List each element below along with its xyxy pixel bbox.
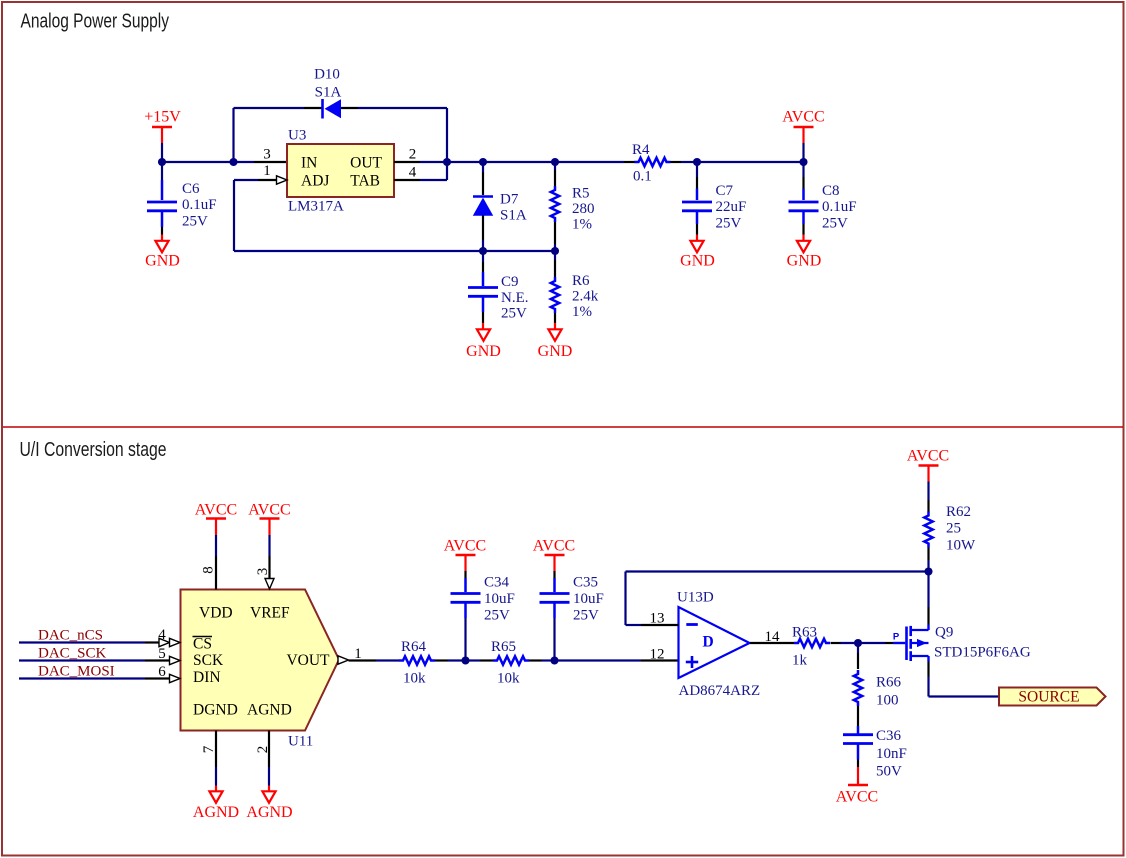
wire	[162, 161, 234, 163]
svg-text:AVCC: AVCC	[533, 538, 575, 555]
wire drain	[927, 572, 929, 608]
svg-text:GND: GND	[466, 343, 501, 360]
wire	[161, 143, 163, 162]
svg-text:D7: D7	[500, 192, 519, 208]
resistor R62	[927, 482, 929, 501]
svg-text:R6: R6	[572, 273, 590, 289]
resistor R64	[399, 656, 435, 664]
svg-text:5: 5	[158, 646, 166, 662]
ground GND R6	[554, 323, 556, 329]
wire pin2 stub OUT	[394, 161, 420, 163]
net DAC_nCS wire	[19, 641, 145, 643]
node C8 junction	[799, 158, 807, 166]
pin 6 arrow	[170, 674, 181, 682]
svg-text:U3: U3	[288, 128, 306, 144]
svg-text:1%: 1%	[572, 217, 592, 233]
resistor R65	[466, 659, 481, 661]
svg-text:12: 12	[650, 647, 665, 663]
ground AGND pin2	[268, 786, 270, 792]
section divider	[3, 426, 1123, 428]
wire to pin 12	[555, 659, 642, 661]
capacitor C35	[553, 571, 555, 578]
wire gate	[858, 642, 885, 644]
svg-text:ADJ: ADJ	[301, 173, 329, 190]
svg-text:R65: R65	[491, 639, 516, 655]
svg-text:OUT: OUT	[350, 155, 382, 172]
wire pin1 stub	[234, 179, 258, 181]
resistor R5	[554, 162, 556, 170]
svg-text:R5: R5	[572, 186, 590, 202]
svg-text:7: 7	[201, 745, 217, 753]
svg-text:0.1uF: 0.1uF	[822, 199, 857, 215]
resistor R63	[794, 639, 830, 647]
net DAC_SCK wire	[19, 659, 145, 661]
svg-text:10W: 10W	[946, 538, 976, 554]
svg-text:R64: R64	[401, 639, 427, 655]
node R6 junction	[551, 247, 559, 255]
wire ADJ left leg	[233, 180, 235, 251]
pin 1 ADJ arrow	[277, 176, 288, 184]
node OUT junction	[443, 158, 451, 166]
svg-text:25V: 25V	[822, 216, 848, 232]
wire VOUT	[349, 659, 377, 661]
pin 4 arrows	[159, 638, 170, 646]
svg-text:N.E.: N.E.	[501, 290, 529, 306]
svg-text:GND: GND	[680, 253, 715, 270]
node D7 junction	[479, 158, 487, 166]
svg-text:100: 100	[876, 693, 899, 709]
svg-text:S1A: S1A	[500, 208, 527, 224]
svg-text:8: 8	[201, 566, 217, 574]
node +15V rail junction	[158, 158, 166, 166]
svg-text:C36: C36	[876, 728, 902, 744]
svg-text:GND: GND	[787, 253, 822, 270]
node drain/feedback junction	[924, 567, 932, 575]
svg-text:C6: C6	[182, 181, 200, 197]
svg-text:VDD: VDD	[199, 605, 233, 622]
power AVCC C36 bottom	[857, 767, 859, 785]
wire pin4 stub TAB	[394, 179, 420, 181]
svg-text:0.1: 0.1	[633, 169, 652, 185]
capacitor C36	[857, 726, 860, 734]
svg-text:13: 13	[650, 611, 665, 627]
pin 5 arrow	[170, 656, 181, 664]
svg-text:+15V: +15V	[144, 109, 181, 126]
svg-text:AGND: AGND	[193, 804, 239, 821]
wire pin 14	[750, 642, 794, 644]
resistor R66	[857, 643, 859, 653]
svg-text:LM317A: LM317A	[288, 199, 344, 215]
svg-text:D10: D10	[314, 67, 340, 83]
svg-text:R4: R4	[632, 142, 650, 158]
svg-text:AVCC: AVCC	[782, 109, 824, 126]
ground GND C7	[696, 235, 698, 241]
svg-text:U/I Conversion stage: U/I Conversion stage	[20, 439, 167, 461]
wire	[555, 161, 624, 163]
svg-text:STD15P6F6AG: STD15P6F6AG	[934, 645, 1031, 661]
svg-text:S1A: S1A	[315, 85, 342, 101]
svg-text:AVCC: AVCC	[248, 502, 290, 519]
capacitor C6	[161, 162, 163, 180]
wire source to flag	[927, 662, 929, 677]
svg-text:C34: C34	[484, 575, 510, 591]
svg-text:IN: IN	[301, 155, 317, 172]
ground AGND pin7	[215, 786, 217, 792]
node D10 tap junction	[229, 158, 237, 166]
svg-text:R63: R63	[792, 625, 817, 641]
capacitor C7	[696, 162, 698, 177]
node R63/R66 junction	[854, 639, 862, 647]
svg-text:10k: 10k	[403, 671, 426, 687]
wire pin 2	[268, 731, 270, 768]
svg-text:Q9: Q9	[935, 625, 953, 641]
svg-text:1k: 1k	[792, 653, 808, 669]
ground GND C6	[161, 235, 163, 241]
node R65/C35 junction	[550, 656, 558, 664]
svg-text:C7: C7	[716, 183, 734, 199]
node R64/C34 junction	[461, 656, 469, 664]
wire	[483, 161, 555, 163]
svg-text:2: 2	[255, 746, 271, 754]
svg-text:10uF: 10uF	[573, 591, 604, 607]
svg-text:0.1uF: 0.1uF	[182, 197, 217, 213]
svg-text:280: 280	[572, 201, 595, 217]
svg-text:R62: R62	[946, 504, 971, 520]
svg-text:25V: 25V	[501, 306, 527, 322]
wire	[802, 143, 804, 162]
svg-text:C9: C9	[501, 274, 519, 290]
svg-text:Analog Power Supply: Analog Power Supply	[21, 11, 170, 33]
svg-text:DIN: DIN	[193, 669, 221, 686]
wire	[697, 161, 804, 163]
svg-text:GND: GND	[145, 253, 180, 270]
svg-text:U11: U11	[288, 734, 313, 750]
ground GND C8	[802, 235, 804, 241]
svg-text:10nF: 10nF	[876, 746, 907, 762]
svg-text:AVCC: AVCC	[836, 789, 878, 806]
svg-text:25V: 25V	[182, 214, 208, 230]
svg-text:C8: C8	[822, 183, 840, 199]
capacitor C9	[482, 251, 484, 262]
node R5 junction	[551, 158, 559, 166]
wire D10 top right	[341, 107, 358, 109]
svg-text:SOURCE: SOURCE	[1018, 689, 1079, 706]
svg-text:TAB: TAB	[350, 173, 380, 190]
svg-text:25V: 25V	[716, 216, 742, 232]
svg-text:GND: GND	[538, 343, 573, 360]
svg-text:4: 4	[409, 165, 417, 181]
svg-text:P: P	[893, 632, 900, 643]
svg-text:C35: C35	[573, 575, 598, 591]
resistor R6	[554, 251, 556, 260]
svg-text:DAC_nCS: DAC_nCS	[38, 628, 103, 644]
node C9 junction	[479, 247, 487, 255]
svg-text:10k: 10k	[497, 671, 520, 687]
wire pin 13 feedback	[624, 572, 626, 626]
svg-text:CS: CS	[193, 636, 212, 653]
svg-text:R66: R66	[876, 675, 902, 691]
wire D10 right leg	[446, 108, 448, 180]
svg-text:U13D: U13D	[677, 590, 714, 606]
svg-text:DAC_MOSI: DAC_MOSI	[38, 664, 115, 680]
svg-text:6: 6	[158, 664, 166, 680]
wire ADJ bottom rail	[234, 250, 555, 252]
op-amp U13D	[679, 607, 750, 678]
wire D10 top left	[234, 107, 305, 109]
svg-text:25V: 25V	[484, 608, 510, 624]
svg-text:VOUT: VOUT	[286, 652, 330, 669]
wire D10 left leg	[232, 108, 234, 162]
svg-text:VREF: VREF	[250, 605, 290, 622]
svg-text:SCK: SCK	[193, 652, 224, 669]
diode D7	[482, 162, 484, 172]
svg-text:3: 3	[255, 568, 271, 576]
svg-text:D: D	[703, 634, 714, 651]
svg-text:AGND: AGND	[246, 804, 292, 821]
node C7 junction	[693, 158, 701, 166]
net DAC_MOSI wire	[19, 677, 145, 679]
wire pin 7	[215, 731, 217, 768]
capacitor C8	[802, 162, 804, 177]
svg-text:1%: 1%	[572, 304, 592, 320]
svg-text:AVCC: AVCC	[195, 502, 237, 519]
svg-text:1: 1	[263, 163, 271, 179]
ground GND C9	[482, 323, 484, 329]
capacitor C34	[464, 571, 466, 578]
svg-text:AVCC: AVCC	[907, 448, 949, 465]
svg-text:2.4k: 2.4k	[572, 289, 599, 305]
svg-text:25: 25	[946, 521, 961, 537]
regulator U3	[287, 144, 394, 197]
svg-text:22uF: 22uF	[716, 199, 747, 215]
svg-text:3: 3	[263, 147, 271, 163]
wire	[447, 161, 483, 163]
transistor Q9	[905, 627, 908, 661]
diode D10	[321, 99, 324, 119]
svg-text:AD8674ARZ: AD8674ARZ	[679, 683, 761, 699]
DAC U11	[181, 590, 340, 731]
resistor R4	[624, 161, 635, 163]
svg-text:DGND: DGND	[193, 702, 238, 719]
svg-text:10uF: 10uF	[484, 591, 515, 607]
svg-text:4: 4	[158, 627, 166, 643]
wire pin3 stub	[234, 161, 255, 163]
pin 3 VREF arrow	[265, 579, 274, 590]
svg-text:25V: 25V	[573, 608, 599, 624]
svg-text:2: 2	[409, 147, 417, 163]
port SOURCE	[999, 688, 1106, 706]
wire pin 3	[268, 535, 270, 556]
svg-text:50V: 50V	[876, 764, 902, 780]
pin 1 VOUT arrow	[338, 656, 349, 664]
svg-text:AVCC: AVCC	[444, 538, 486, 555]
wire pin 8	[215, 535, 217, 556]
svg-text:AGND: AGND	[247, 702, 292, 719]
wire feedback top	[626, 570, 929, 572]
svg-text:DAC_SCK: DAC_SCK	[38, 646, 107, 662]
